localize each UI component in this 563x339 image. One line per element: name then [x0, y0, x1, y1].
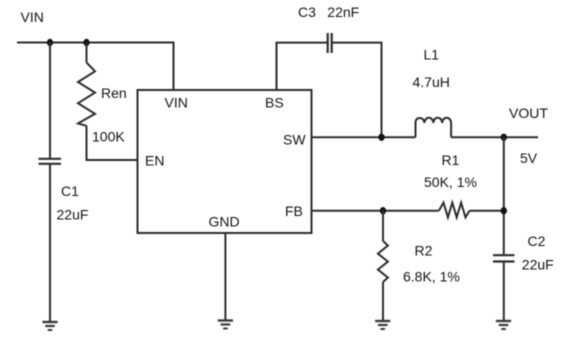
svg-text:R1: R1	[442, 152, 460, 168]
svg-text:C3: C3	[298, 4, 316, 20]
wire GND pin lead	[224, 233, 226, 320]
ground C1	[42, 322, 57, 330]
junction SW node	[378, 134, 384, 141]
svg-text:5V: 5V	[520, 150, 538, 166]
wire R1 to VOUT branch	[470, 210, 505, 212]
junction R1 C2 node	[501, 207, 507, 214]
IC U1 body	[138, 90, 312, 233]
junction FB / R2 tap	[380, 207, 386, 214]
svg-text:FB: FB	[285, 203, 303, 219]
junction C1 tap	[47, 39, 53, 46]
wire SW pin	[312, 136, 416, 138]
wire Ren to EN pin	[87, 126, 138, 160]
svg-text:BS: BS	[265, 95, 284, 111]
capacitor C2	[493, 255, 515, 261]
svg-text:R2: R2	[415, 243, 433, 259]
junction VOUT node	[501, 134, 507, 141]
wire C1 upper lead	[49, 43, 51, 159]
wire BS pin riser	[277, 43, 328, 90]
capacitor C3	[328, 33, 332, 53]
ground C2	[496, 321, 511, 329]
svg-text:6.8K, 1%: 6.8K, 1%	[403, 269, 460, 285]
svg-text:C1: C1	[61, 183, 79, 199]
resistor R2	[378, 241, 388, 282]
wire L1 to VOUT	[451, 136, 538, 138]
inductor L1	[416, 118, 452, 138]
junction Ren tap	[83, 39, 89, 46]
svg-text:22uF: 22uF	[522, 257, 554, 273]
svg-text:22uF: 22uF	[57, 207, 89, 223]
wire C2 lower lead	[503, 262, 505, 321]
wire R2 lower lead	[382, 282, 384, 321]
wire C1 lower lead	[49, 164, 51, 322]
svg-text:Ren: Ren	[101, 85, 127, 101]
svg-text:50K, 1%: 50K, 1%	[424, 174, 477, 190]
svg-text:SW: SW	[283, 132, 306, 148]
resistor R1	[439, 203, 470, 218]
wire VOUT node down to C2 top plate	[503, 137, 505, 255]
capacitor C1	[39, 159, 62, 164]
svg-text:22nF: 22nF	[327, 4, 359, 20]
ground GND pin	[218, 321, 233, 329]
resistor Ren	[78, 63, 95, 126]
wire C3 to SW node	[332, 43, 382, 138]
svg-text:C2: C2	[528, 233, 546, 249]
svg-text:VIN: VIN	[165, 95, 188, 111]
svg-text:4.7uH: 4.7uH	[413, 74, 450, 90]
wire R2 upper lead	[382, 211, 384, 241]
svg-text:VIN: VIN	[21, 9, 44, 25]
svg-text:L1: L1	[424, 47, 440, 63]
wire top rail from VIN to IC VIN pin	[17, 43, 174, 91]
svg-text:100K: 100K	[92, 129, 125, 145]
wire FB pin	[312, 210, 439, 212]
svg-text:EN: EN	[145, 153, 164, 169]
svg-text:GND: GND	[209, 214, 240, 230]
wire Ren upper lead	[86, 43, 88, 63]
ground R2	[375, 321, 390, 329]
svg-text:VOUT: VOUT	[509, 105, 548, 121]
